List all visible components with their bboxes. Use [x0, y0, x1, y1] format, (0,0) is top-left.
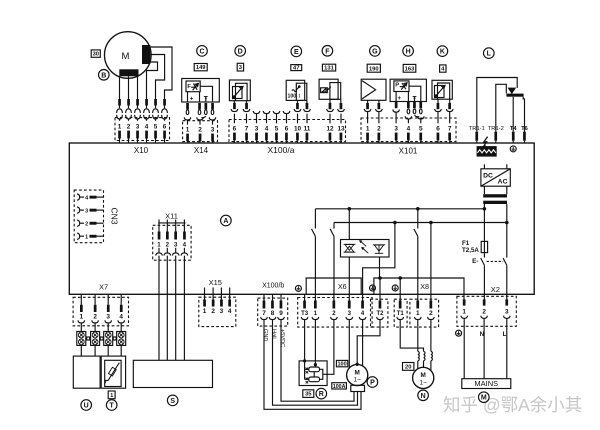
label S [167, 395, 178, 406]
wire T4 lead [512, 97, 514, 132]
svg-text:4: 4 [228, 308, 232, 315]
svg-text:8: 8 [271, 310, 275, 317]
wire TR1-2 lead [496, 84, 507, 131]
wire SSR led to T2 [379, 257, 381, 278]
wire T2 drop [379, 278, 381, 301]
earth on X8 module [392, 285, 398, 291]
limit thermostat E [286, 80, 307, 100]
label H [403, 46, 414, 57]
svg-text:AC: AC [498, 179, 508, 186]
wire X6-2 to R [327, 320, 334, 375]
device S box [133, 360, 212, 387]
wire transformer right to switch [506, 204, 508, 258]
svg-text:4: 4 [407, 125, 411, 132]
svg-text:DC: DC [483, 172, 493, 179]
svg-text:X100/b: X100/b [262, 283, 284, 290]
wire T1 drop [399, 278, 401, 301]
junction on B at transformer [505, 221, 509, 225]
junction on A at relay3 [416, 207, 420, 211]
svg-text:5: 5 [419, 125, 423, 132]
value 3 (D) [237, 63, 243, 71]
earth left of X6 [295, 285, 301, 291]
svg-text:12: 12 [326, 125, 334, 132]
label A [221, 215, 232, 226]
svg-text:T4: T4 [510, 126, 518, 132]
svg-text:7: 7 [245, 125, 249, 132]
svg-text:1: 1 [80, 314, 84, 321]
svg-text:149: 149 [196, 65, 206, 71]
connector X100/a [229, 103, 346, 143]
svg-text:190: 190 [369, 66, 379, 72]
relay module box X8 side [374, 278, 464, 294]
svg-text:D: D [238, 48, 243, 55]
label E [291, 46, 302, 57]
svg-text:3: 3 [85, 208, 88, 214]
svg-text:47: 47 [293, 66, 299, 72]
label CN3 [110, 207, 120, 224]
switch E left pole [481, 253, 485, 300]
connector X7 [73, 294, 128, 331]
connector X14 [183, 103, 218, 143]
svg-text:Hall: Hall [271, 329, 277, 339]
value 190 (G) [367, 64, 380, 72]
wire E to X100a-11 [306, 100, 308, 103]
svg-text:3: 3 [106, 314, 110, 321]
display G [361, 79, 386, 100]
label L [503, 331, 507, 338]
svg-text:6: 6 [285, 125, 289, 132]
svg-text:X14: X14 [194, 146, 209, 155]
ignition transformer block [477, 146, 497, 157]
svg-text:E: E [294, 49, 299, 56]
svg-text:1: 1 [462, 309, 466, 316]
svg-text:1~: 1~ [420, 379, 428, 386]
wire T2 to pump P top [356, 320, 381, 366]
wire X6-3 to pump P [348, 320, 350, 368]
svg-text:163: 163 [405, 66, 415, 72]
value 131 (F) [322, 64, 335, 72]
svg-text:3: 3 [220, 308, 224, 315]
svg-text:+: + [190, 96, 194, 102]
svg-text:X10: X10 [134, 146, 149, 155]
svg-text:2: 2 [377, 125, 381, 132]
wire X8-2 to fan N [430, 320, 432, 352]
label X7 [99, 283, 108, 292]
label R [316, 388, 327, 399]
transformer [483, 186, 507, 204]
svg-text:P: P [395, 83, 399, 89]
connector X2 [457, 296, 516, 326]
svg-text:E-: E- [472, 258, 478, 265]
relay module box X6 side [306, 278, 361, 294]
svg-text:G: G [372, 48, 378, 55]
svg-text:K: K [440, 49, 445, 56]
wire transformer left to fuse [483, 204, 485, 241]
label G [370, 46, 381, 57]
svg-text:H: H [406, 48, 411, 55]
junction T1 on module [398, 276, 402, 280]
fan N [413, 367, 434, 388]
wire T6 lead [523, 97, 524, 132]
label M [479, 392, 490, 403]
label Hall [271, 329, 277, 339]
wire module to X2-1 [463, 294, 465, 299]
fan C [182, 79, 220, 103]
label X100/b [262, 283, 284, 290]
switch E right pole [503, 258, 507, 300]
connector X10 [115, 99, 170, 143]
wire B to X8-2 [430, 223, 432, 295]
svg-text:P: P [370, 380, 375, 387]
wire F to X100a-12 [329, 99, 331, 103]
svg-text:11: 11 [304, 125, 311, 132]
main control board outline A [69, 143, 534, 294]
svg-text:A: A [223, 218, 228, 225]
switch gang dashed link [487, 260, 504, 262]
connector X15 [199, 288, 236, 327]
device U box [73, 356, 100, 388]
label X101 [399, 146, 418, 155]
choke coils to fan N [418, 351, 433, 370]
relay contact 2 to X6-2 [330, 223, 334, 295]
wire motor to X10-6 [150, 47, 172, 99]
value 149 (C) [194, 64, 207, 72]
wire X8-1 to fan N [417, 320, 419, 352]
svg-text:3: 3 [136, 124, 140, 131]
svg-text:GND: GND [262, 329, 268, 341]
svg-text:F1: F1 [462, 240, 470, 247]
fuse F1 [481, 241, 487, 252]
svg-text:35: 35 [305, 392, 312, 398]
label T [106, 400, 117, 411]
svg-text:4: 4 [119, 314, 123, 321]
value 163 (H) [403, 64, 416, 72]
wire D to X100a-7 [246, 101, 248, 103]
wire terminals to T [108, 345, 121, 356]
svg-text:M: M [355, 369, 360, 376]
svg-text:X2: X2 [491, 285, 500, 294]
wire G to X101-2 [378, 100, 380, 103]
svg-text:4: 4 [265, 125, 269, 132]
wire D to X100a-6 [233, 101, 235, 103]
device T sensor box [101, 356, 125, 388]
label E- [472, 258, 478, 265]
svg-text:MAINS: MAINS [474, 379, 498, 388]
gas valve D [229, 80, 250, 101]
value 20 [403, 363, 414, 371]
motor B (M) [105, 32, 152, 79]
label X14 [194, 146, 209, 155]
junction T2 on module [378, 276, 382, 280]
svg-text:2: 2 [211, 308, 215, 315]
svg-text:3: 3 [255, 125, 259, 132]
svg-text:T2: T2 [376, 311, 384, 317]
label X11 [165, 211, 178, 220]
svg-text:1: 1 [186, 127, 190, 134]
svg-text:CN3: CN3 [110, 207, 120, 224]
svg-text:1: 1 [416, 310, 420, 317]
wire motor to X10-1 [119, 76, 121, 99]
junction on A at SSR [348, 207, 352, 211]
earth near T4 [510, 146, 516, 152]
wire triac to X6-3 [348, 257, 350, 294]
wire TR1-1 lead [477, 78, 517, 132]
terminal T4 [510, 126, 518, 143]
junction on B at X8-2 [429, 221, 433, 225]
label N [418, 390, 429, 401]
svg-text:M: M [122, 51, 130, 62]
label GND [262, 329, 268, 341]
svg-text:X11: X11 [165, 211, 178, 220]
svg-text:X7: X7 [99, 283, 108, 292]
svg-text:T6: T6 [521, 126, 529, 132]
value 47 (E) [291, 65, 302, 72]
svg-text:L: L [487, 51, 492, 58]
svg-text:1: 1 [366, 125, 370, 132]
label U [81, 400, 92, 411]
label N [480, 331, 485, 338]
pressure switch F [319, 79, 341, 99]
terminal T2 [371, 299, 388, 327]
svg-text:6: 6 [233, 125, 237, 132]
svg-text:4: 4 [85, 195, 88, 201]
wire X6-T3 to R [303, 320, 306, 363]
label X8 [420, 282, 429, 291]
svg-text:2: 2 [127, 124, 131, 131]
svg-text:U: U [84, 403, 89, 410]
relay contact 3 to X8-1 [414, 209, 418, 294]
svg-text:4: 4 [145, 124, 149, 131]
svg-text:3: 3 [394, 125, 398, 132]
wire motor to X10-2 [128, 76, 130, 99]
wire X2-2 to MAINS [483, 318, 485, 378]
svg-text:3: 3 [174, 241, 178, 248]
terminal TR1-2 [488, 126, 504, 143]
svg-text:5: 5 [154, 124, 158, 131]
wire +5VDC to pump P [281, 326, 354, 401]
pump-fan module H [390, 79, 426, 102]
terminal TR1-1 [469, 126, 485, 143]
wire terminals to U [81, 345, 95, 356]
value 100A [332, 383, 347, 390]
connector X8 [410, 294, 439, 327]
optotriac U-SSR [341, 240, 390, 258]
wire F to X100a-13 [340, 99, 342, 103]
wire K to X101-7 [449, 99, 451, 103]
wire motor to X10-4 [147, 62, 158, 99]
terminal T6 [521, 126, 529, 143]
earth label X2-1 [456, 330, 462, 336]
wire motor to X10-5 [150, 55, 164, 100]
DC/AC converter [481, 164, 510, 186]
svg-text:2: 2 [482, 309, 486, 316]
wire bus line B [334, 222, 507, 224]
wire GND to pump P [264, 326, 361, 409]
svg-text:X100/a: X100/a [268, 145, 295, 155]
wire X6-4 to pump P [362, 320, 364, 366]
value 4 (K) [440, 65, 446, 73]
terminal block strip [77, 332, 126, 346]
connector X101 [361, 102, 456, 144]
wire K to X101-6 [437, 99, 439, 103]
wire bus line A [315, 208, 484, 210]
svg-text:4: 4 [183, 241, 187, 248]
svg-text:6: 6 [436, 125, 440, 132]
svg-text:13: 13 [337, 125, 345, 132]
svg-text:7: 7 [448, 125, 452, 132]
valve K [432, 80, 452, 99]
svg-text:+5VDC: +5VDC [279, 329, 285, 347]
wire X11 to S [159, 260, 184, 360]
terminal T1 [394, 299, 407, 327]
label X10 [134, 146, 149, 155]
wire line A to triac [348, 209, 350, 240]
svg-text:C: C [199, 48, 204, 55]
value 35 (R) [303, 390, 314, 398]
svg-text:X8: X8 [420, 282, 429, 291]
svg-text:3: 3 [505, 309, 509, 316]
svg-text:2: 2 [93, 314, 97, 321]
svg-text:X15: X15 [209, 278, 222, 287]
label P [367, 377, 378, 388]
relay contact 1 to X6-1 [312, 209, 316, 294]
connector CN3 [74, 190, 103, 243]
svg-text:3: 3 [211, 127, 215, 134]
svg-text:20: 20 [405, 365, 411, 371]
svg-text:1: 1 [203, 308, 207, 315]
label +5VDC [279, 329, 285, 347]
svg-text:100A: 100A [333, 384, 346, 390]
label F [322, 46, 333, 57]
svg-text:R: R [319, 391, 324, 398]
svg-text:2: 2 [166, 241, 170, 248]
pump P [347, 364, 368, 391]
wire Hall to pump P [273, 326, 358, 405]
svg-text:X6: X6 [338, 282, 347, 291]
wire E to X100a-10 [297, 100, 299, 103]
wire X2-3 to MAINS [506, 318, 508, 378]
label X15 [209, 278, 222, 287]
wire X6-1 to R coil [314, 320, 317, 367]
wire X2-1 to MAINS [463, 318, 465, 378]
svg-text:B: B [101, 72, 106, 79]
svg-text:2: 2 [429, 310, 433, 317]
svg-text:1: 1 [157, 241, 161, 248]
svg-text:2: 2 [85, 221, 88, 227]
connector X100/b [258, 294, 288, 326]
label C [197, 46, 208, 57]
svg-text:M: M [481, 395, 487, 402]
svg-text:2: 2 [198, 127, 202, 134]
svg-text:F: F [325, 48, 330, 55]
wire G to X101-1 [367, 100, 369, 103]
svg-text:+: + [397, 96, 401, 102]
connector X11 [153, 220, 191, 261]
svg-text:131: 131 [324, 66, 334, 72]
label X2 [491, 285, 500, 294]
device R box [299, 361, 327, 386]
svg-text:100: 100 [287, 94, 296, 100]
spark gap electrode (L) [506, 88, 523, 97]
svg-text:S: S [170, 398, 175, 405]
svg-text:1~: 1~ [354, 376, 362, 383]
svg-text:30: 30 [93, 52, 99, 58]
svg-text:100: 100 [338, 362, 347, 368]
svg-text:TR1-2: TR1-2 [488, 126, 504, 132]
wire bent B to X6-4 [363, 223, 395, 295]
label K [437, 46, 448, 57]
svg-text:7: 7 [262, 310, 266, 317]
svg-text:T: T [110, 403, 115, 410]
label L [484, 48, 495, 59]
svg-text:N: N [421, 393, 426, 400]
connector X6 [298, 294, 372, 327]
svg-text:5: 5 [275, 125, 279, 132]
value 100 [336, 360, 347, 367]
lightning symbol [482, 137, 487, 149]
svg-text:TR1-1: TR1-1 [469, 126, 485, 132]
svg-text:知乎 @鄂A余小其: 知乎 @鄂A余小其 [443, 395, 582, 415]
value 30 (B) [91, 50, 100, 58]
svg-text:T3: T3 [301, 311, 309, 317]
label D [235, 46, 246, 57]
wire motor to X10-3 [137, 76, 139, 99]
wire T1 to fan N [400, 320, 423, 352]
svg-text:T1: T1 [397, 311, 405, 317]
junction on A at transformer [483, 207, 487, 211]
svg-text:X101: X101 [399, 146, 418, 155]
svg-text:1: 1 [85, 234, 88, 240]
value 1 (T) [108, 391, 115, 399]
svg-text:L: L [503, 331, 507, 338]
svg-text:9: 9 [279, 310, 283, 317]
label X100/a [268, 145, 295, 155]
svg-text:6: 6 [163, 124, 167, 131]
label B [99, 70, 110, 81]
svg-text:T2,5A: T2,5A [462, 247, 479, 254]
value F1 T2,5A [462, 240, 479, 254]
svg-text:1: 1 [118, 124, 122, 131]
MAINS box [462, 379, 511, 389]
svg-text:M: M [421, 372, 426, 379]
earth between X6 and T2 [370, 285, 376, 291]
svg-text:10: 10 [294, 125, 302, 132]
junction on B at bent branch [393, 221, 397, 225]
label X6 [338, 282, 347, 291]
